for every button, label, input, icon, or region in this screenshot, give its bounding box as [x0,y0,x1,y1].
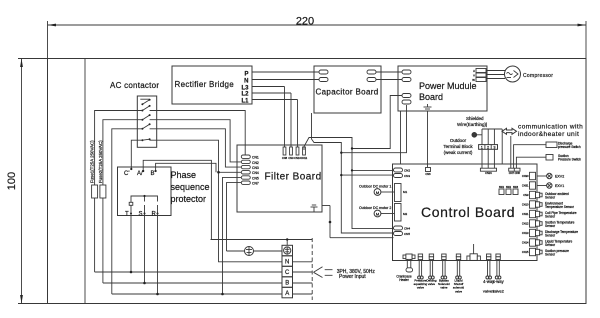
svg-text:M1: M1 [403,190,407,194]
svg-text:CN7 CN8: CN7 CN8 [509,171,521,175]
svg-text:Shielded: Shielded [466,116,484,121]
svg-text:CN24: CN24 [485,171,492,175]
svg-text:valve: valve [428,282,435,286]
svg-text:B': B' [151,171,156,177]
svg-text:220: 220 [296,16,314,28]
svg-text:Fuse1(T25A 250VAC): Fuse1(T25A 250VAC) [90,140,95,183]
svg-text:CN6: CN6 [425,172,431,176]
svg-text:S: S [139,211,143,217]
svg-text:Temperature Sensor: Temperature Sensor [545,205,575,209]
svg-text:Compressor: Compressor [523,73,553,79]
svg-text:Outdoor: Outdoor [450,138,467,143]
svg-text:CN11: CN11 [301,156,308,160]
svg-text:Phase: Phase [171,170,197,180]
svg-text:Fuse2(T25A 250VAC): Fuse2(T25A 250VAC) [98,140,103,183]
svg-text:CN7: CN7 [252,182,259,186]
svg-text:CN2: CN2 [404,169,410,173]
svg-text:M: M [376,211,379,216]
svg-text:Pressure Switch: Pressure Switch [558,158,581,162]
svg-text:SW1: SW1 [499,186,505,189]
svg-text:1: 1 [481,146,483,150]
svg-text:indoor&heater unit: indoor&heater unit [518,131,579,138]
svg-text:valve: valve [417,286,424,290]
svg-text:A/: A/ [137,171,143,177]
svg-text:CN4: CN4 [404,227,410,231]
svg-text:SW2: SW2 [506,186,512,189]
svg-text:V: V [473,74,475,78]
svg-text:CN30: CN30 [522,174,529,178]
svg-text:communication with: communication with [518,124,583,131]
svg-text:Sensor: Sensor [545,233,556,237]
svg-text:Capacitor Board: Capacitor Board [316,88,379,97]
svg-text:valve: valve [440,286,447,290]
svg-text:CN4: CN4 [252,171,259,175]
svg-text:CN9: CN9 [523,193,529,197]
svg-text:CN8: CN8 [282,156,288,160]
svg-text:U: U [473,69,475,73]
svg-text:CN1: CN1 [252,156,259,160]
svg-text:Wire(Earthing)|: Wire(Earthing)| [457,122,487,127]
svg-text:Power Input: Power Input [339,274,366,280]
svg-text:CN14: CN14 [522,241,529,245]
svg-text:EXV2: EXV2 [555,175,564,179]
svg-text:T: T [125,211,129,217]
svg-text:EXV1: EXV1 [555,184,564,188]
svg-text:Sensor: Sensor [545,214,556,218]
svg-text:CN10: CN10 [522,203,529,207]
svg-text:CN3: CN3 [252,166,259,170]
svg-text:Power Mudule: Power Mudule [419,81,477,91]
svg-text:CN3: CN3 [404,174,410,178]
svg-text:Sensor: Sensor [545,224,556,228]
svg-text:M2: M2 [403,212,407,216]
svg-text:C': C' [124,171,129,177]
svg-text:Board: Board [419,92,443,102]
svg-text:CN12: CN12 [522,222,529,226]
svg-text:valve2: valve2 [492,288,504,293]
svg-text:AC contactor: AC contactor [110,81,159,90]
svg-text:Sensor: Sensor [545,243,556,247]
svg-text:(weak current): (weak current) [444,150,473,155]
svg-text:protector: protector [171,194,207,204]
svg-text:3: 3 [493,146,495,150]
svg-text:Heater: Heater [399,278,410,282]
svg-text:N: N [285,259,289,265]
svg-text:sequence: sequence [171,182,210,192]
svg-text:4-way: 4-way [493,279,505,284]
svg-text:CN31: CN31 [522,184,529,188]
svg-text:100: 100 [6,172,18,190]
svg-text:Outdoor DC motor 2: Outdoor DC motor 2 [359,206,391,210]
svg-text:L2: L2 [241,92,249,98]
svg-text:CN15: CN15 [522,250,529,254]
svg-text:C: C [285,270,290,276]
svg-text:L1: L1 [241,99,249,105]
svg-text:Filter Board: Filter Board [265,172,322,183]
svg-text:W: W [472,78,475,82]
svg-text:Rectifier Bridge: Rectifier Bridge [175,80,235,89]
svg-text:Control Board: Control Board [421,204,515,220]
svg-text:2: 2 [487,146,489,150]
svg-text:M: M [376,190,379,195]
svg-text:Outdoor DC motor 1: Outdoor DC motor 1 [359,184,391,188]
svg-text:Sensor: Sensor [545,195,556,199]
svg-text:Terminal Block: Terminal Block [443,144,473,149]
svg-text:pressure Switch: pressure Switch [558,145,581,149]
svg-text:R: R [152,211,157,217]
svg-text:valve: valve [455,289,462,293]
svg-text:CN2: CN2 [252,161,259,165]
svg-text:CN13: CN13 [522,231,529,235]
svg-text:CN5: CN5 [404,232,410,236]
svg-text:N: N [244,79,248,85]
svg-text:B: B [285,280,289,286]
svg-text:A: A [285,291,289,297]
svg-text:SW3: SW3 [513,186,519,189]
svg-text:CN5: CN5 [252,176,259,180]
svg-text:CN11: CN11 [522,212,529,216]
svg-text:P: P [244,72,248,78]
svg-text:Sensor: Sensor [545,252,556,256]
